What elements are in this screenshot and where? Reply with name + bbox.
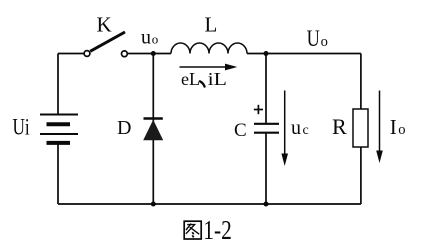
capacitor C top plate (254, 123, 279, 125)
battery Ui plate long (40, 133, 78, 135)
svg-text:iL: iL (208, 69, 227, 89)
svg-text:Ui: Ui (13, 114, 30, 139)
node right of L dot (264, 51, 269, 56)
node uo dot (151, 51, 156, 56)
svg-text:R: R (332, 114, 347, 139)
switch K right terminal (122, 51, 128, 57)
svg-text:C: C (234, 120, 247, 141)
switch K left terminal (84, 51, 90, 57)
svg-text:1-2: 1-2 (203, 215, 232, 245)
battery Ui plate short thick (47, 122, 71, 126)
arrow uc (281, 91, 288, 167)
wire right vertical upper (360, 54, 362, 110)
inductor L (171, 43, 247, 54)
svg-text:o: o (152, 32, 159, 47)
wire capacitor branch lower (265, 133, 267, 204)
svg-text:u: u (291, 117, 301, 139)
wire left vertical upper (57, 54, 59, 115)
wire capacitor branch upper (265, 54, 267, 124)
node bottom left dot (151, 202, 156, 207)
arrow eL iL (180, 64, 238, 71)
capacitor C bottom plate (254, 132, 279, 134)
svg-text:L: L (205, 13, 218, 37)
resistor R body (353, 109, 368, 147)
node bottom right dot (264, 202, 269, 207)
svg-text:U: U (307, 26, 320, 51)
svg-text:o: o (398, 122, 405, 138)
svg-text:I: I (390, 115, 397, 139)
svg-text:u: u (141, 27, 151, 49)
battery Ui plate long top (40, 114, 78, 116)
svg-text:D: D (117, 117, 131, 139)
switch K blade (90, 32, 125, 51)
caption tu character (184, 221, 201, 239)
arrow Io (376, 91, 383, 164)
plus sign (254, 105, 263, 114)
diode D cathode bar (144, 117, 163, 120)
wire diode branch (152, 54, 154, 205)
svg-text:c: c (303, 123, 309, 138)
ideographic comma (200, 81, 205, 86)
svg-text:K: K (97, 13, 112, 37)
wire inductor right to corner (247, 53, 361, 55)
svg-text:eL: eL (181, 69, 200, 89)
wire switch to node uo (128, 53, 171, 55)
svg-text:o: o (321, 34, 328, 50)
wire bottom rail (58, 203, 361, 205)
wire right vertical lower (360, 147, 362, 204)
wire top-left horizontal (58, 53, 84, 55)
battery Ui plate short thick bottom (47, 141, 71, 145)
wire left vertical lower (57, 143, 59, 204)
diode D triangle (143, 120, 163, 140)
